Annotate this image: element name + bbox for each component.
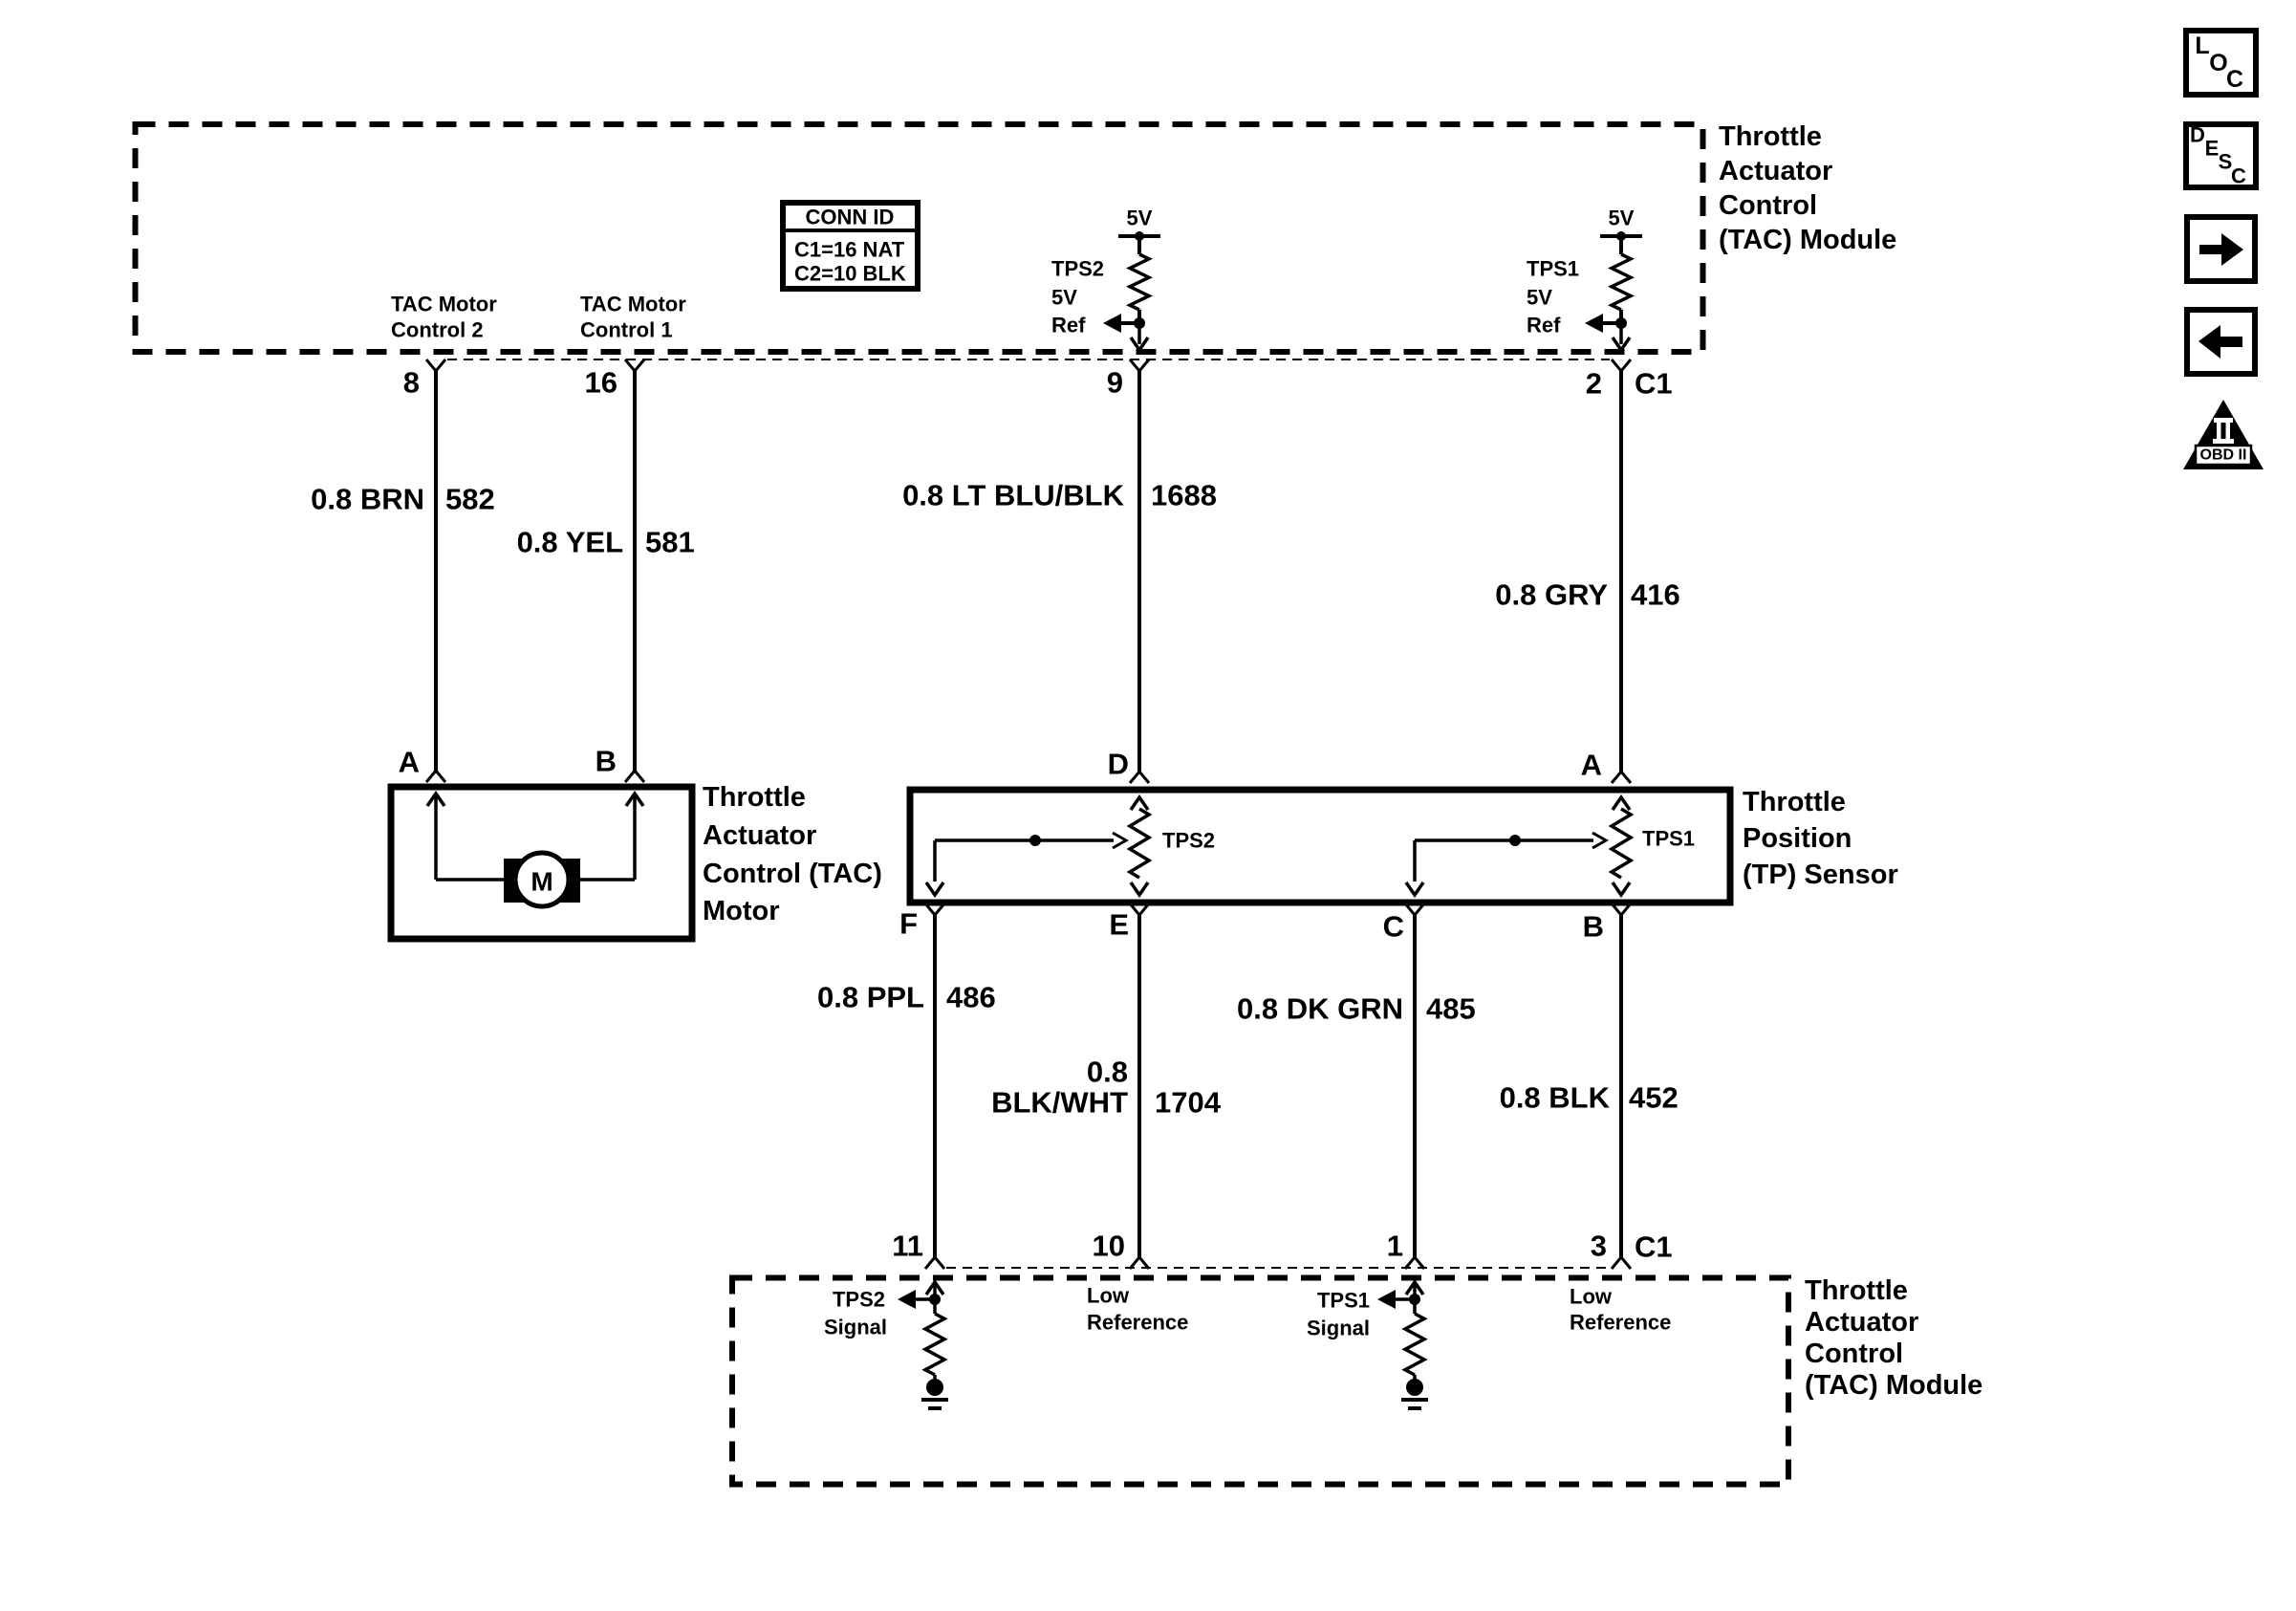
svg-text:TPS1: TPS1 bbox=[1527, 257, 1579, 281]
svg-text:0.8 LT BLU/BLK: 0.8 LT BLU/BLK bbox=[902, 479, 1125, 512]
svg-text:485: 485 bbox=[1426, 992, 1476, 1026]
wire: TPS2 5V Ref down to module edge with arrow bbox=[1131, 323, 1148, 350]
svg-text:(TAC) Module: (TAC) Module bbox=[1719, 225, 1896, 255]
label: TPS2 Signal bbox=[824, 1288, 887, 1339]
wire 485: 0.8 DK GRN from sensor C to module pin 1 bbox=[1413, 915, 1417, 1257]
svg-text:Throttle: Throttle bbox=[1743, 787, 1846, 817]
svg-text:F: F bbox=[899, 907, 918, 941]
wire 416: 0.8 GRY from pin 2 to sensor A bbox=[1619, 371, 1623, 772]
svg-text:0.8 PPL: 0.8 PPL bbox=[817, 981, 924, 1014]
svg-text:9: 9 bbox=[1107, 366, 1123, 400]
svg-text:11: 11 bbox=[892, 1230, 923, 1263]
wire: TPS1 signal entering module at pin bbox=[1406, 1282, 1423, 1299]
svg-text:Position: Position bbox=[1743, 823, 1852, 854]
svg-text:0.8 YEL: 0.8 YEL bbox=[517, 526, 623, 559]
label: wire 1688 colour/number bbox=[902, 479, 1217, 512]
svg-text:2: 2 bbox=[1586, 367, 1602, 401]
motor M1: TAC motor box bbox=[391, 787, 692, 939]
wire: TPS2 signal entering module at pin bbox=[926, 1282, 943, 1299]
pin 3 of bottom TAC module connector bbox=[1612, 1257, 1631, 1269]
connector: thin dashed C1 line above bottom module bbox=[946, 1267, 1610, 1269]
pin F of TP sensor bbox=[925, 903, 944, 915]
svg-text:B: B bbox=[596, 745, 617, 778]
label: TAC Motor Control 1 bbox=[580, 293, 686, 342]
svg-text:0.8 BLK: 0.8 BLK bbox=[1500, 1081, 1611, 1115]
svg-text:416: 416 bbox=[1631, 578, 1680, 612]
svg-text:CONN ID: CONN ID bbox=[806, 206, 895, 229]
svg-text:A: A bbox=[1581, 749, 1602, 782]
svg-text:(TP) Sensor: (TP) Sensor bbox=[1743, 860, 1898, 890]
svg-text:582: 582 bbox=[445, 483, 495, 516]
svg-text:Actuator: Actuator bbox=[1805, 1307, 1918, 1338]
module U1b: Throttle Actuator Control (TAC) Module (bottom dashed box) bbox=[732, 1278, 1788, 1485]
svg-text:486: 486 bbox=[946, 981, 996, 1014]
wire: TPS1 5V Ref down to module edge with arrow bbox=[1613, 323, 1630, 350]
node: 5V supply for TPS2 bbox=[1118, 207, 1160, 255]
pin 9 of top TAC module connector bbox=[1130, 359, 1149, 371]
svg-text:D: D bbox=[1108, 748, 1129, 781]
svg-text:D: D bbox=[2190, 123, 2205, 147]
svg-text:OBD II: OBD II bbox=[2200, 447, 2247, 464]
connector ID table bbox=[783, 203, 918, 289]
svg-text:452: 452 bbox=[1629, 1081, 1679, 1115]
svg-text:Low: Low bbox=[1570, 1285, 1613, 1309]
svg-text:C1: C1 bbox=[1635, 367, 1673, 401]
svg-text:C: C bbox=[2231, 164, 2246, 188]
resistor: TPS2 signal load bbox=[925, 1299, 944, 1382]
wire: motor internal lead B bbox=[626, 794, 643, 880]
svg-text:C1=16 NAT: C1=16 NAT bbox=[794, 238, 905, 262]
svg-text:Throttle: Throttle bbox=[1805, 1275, 1908, 1306]
svg-text:Actuator: Actuator bbox=[703, 820, 816, 851]
svg-text:Motor: Motor bbox=[703, 896, 780, 926]
wire 582: 0.8 BRN from pin 8 to motor A bbox=[434, 371, 438, 771]
sensor box: Throttle Position (TP) Sensor bbox=[910, 790, 1730, 903]
wire 1688: 0.8 LT BLU/BLK from pin 9 to sensor D bbox=[1137, 371, 1141, 772]
node: 5V supply for TPS1 bbox=[1600, 207, 1642, 255]
svg-text:O: O bbox=[2209, 50, 2227, 76]
svg-text:8: 8 bbox=[403, 366, 420, 400]
svg-text:Control (TAC): Control (TAC) bbox=[703, 859, 882, 889]
svg-text:L: L bbox=[2195, 33, 2209, 59]
pin 16 of top TAC module connector bbox=[625, 359, 644, 371]
wire: TPS2 wiper arm bbox=[926, 833, 1126, 895]
svg-text:E: E bbox=[1109, 908, 1129, 942]
pin A of TAC motor bbox=[426, 771, 445, 782]
wire 581: 0.8 YEL from pin 16 to motor B bbox=[633, 371, 637, 771]
svg-text:Ref: Ref bbox=[1527, 314, 1561, 337]
svg-text:Reference: Reference bbox=[1087, 1311, 1188, 1335]
svg-text:TPS1: TPS1 bbox=[1317, 1289, 1370, 1313]
svg-text:TAC Motor: TAC Motor bbox=[391, 293, 497, 316]
icon: OBD II symbol bbox=[2183, 400, 2264, 469]
resistor: TPS2 potentiometer element bbox=[1130, 797, 1149, 895]
wire 452: 0.8 BLK from sensor B to module pin 3 bbox=[1619, 915, 1623, 1257]
svg-text:0.8 DK GRN: 0.8 DK GRN bbox=[1237, 992, 1403, 1026]
label: bottom TAC module name bbox=[1805, 1275, 1982, 1401]
svg-text:C: C bbox=[1383, 910, 1404, 944]
svg-text:C: C bbox=[2226, 66, 2243, 93]
node: TPS1 5V Ref junction bbox=[1585, 314, 1627, 333]
icon: DESC button bbox=[2186, 123, 2256, 188]
svg-text:Signal: Signal bbox=[1307, 1317, 1370, 1340]
svg-text:Control 1: Control 1 bbox=[580, 318, 673, 342]
svg-text:Ref: Ref bbox=[1051, 314, 1086, 337]
pin 8 of top TAC module connector bbox=[426, 359, 445, 371]
svg-text:C2=10 BLK: C2=10 BLK bbox=[794, 262, 906, 286]
label: wire 416 colour/number bbox=[1495, 578, 1679, 612]
svg-text:(TAC) Module: (TAC) Module bbox=[1805, 1370, 1982, 1401]
wire: motor internal lead A bbox=[427, 794, 444, 880]
svg-text:0.8: 0.8 bbox=[1087, 1056, 1128, 1089]
svg-text:1688: 1688 bbox=[1151, 479, 1217, 512]
label: Low Reference (pin 10) bbox=[1087, 1284, 1188, 1335]
node: TPS1 signal junction bbox=[1377, 1290, 1420, 1309]
pin 1 of bottom TAC module connector bbox=[1405, 1257, 1424, 1269]
svg-text:E: E bbox=[2205, 137, 2220, 161]
svg-text:B: B bbox=[1583, 910, 1604, 944]
pin D of TP sensor bbox=[1130, 772, 1149, 783]
svg-text:A: A bbox=[399, 746, 420, 779]
label: wire 581 colour/number bbox=[517, 526, 695, 559]
svg-text:C1: C1 bbox=[1635, 1230, 1673, 1264]
pin 11 of bottom TAC module connector bbox=[925, 1257, 944, 1269]
label: wire 1704 colour/number bbox=[991, 1056, 1222, 1120]
svg-text:10: 10 bbox=[1093, 1230, 1125, 1263]
svg-text:TPS2: TPS2 bbox=[1051, 257, 1104, 281]
label: TPS2 5V Ref bbox=[1051, 257, 1104, 337]
pin A of TP sensor bbox=[1612, 772, 1631, 783]
pin 10 of bottom TAC module connector bbox=[1130, 1257, 1149, 1269]
svg-text:TPS2: TPS2 bbox=[833, 1288, 885, 1312]
svg-text:Control: Control bbox=[1719, 190, 1817, 221]
pin 2 of top TAC module connector bbox=[1612, 359, 1631, 371]
svg-text:Throttle: Throttle bbox=[1719, 121, 1822, 152]
resistor: TPS1 signal load bbox=[1405, 1299, 1424, 1382]
pin E of TP sensor bbox=[1130, 903, 1149, 915]
pin C of TP sensor bbox=[1405, 903, 1424, 915]
node: TPS2 5V Ref junction bbox=[1103, 314, 1145, 333]
resistor: TPS1 5V pull-up bbox=[1612, 254, 1631, 323]
svg-text:Control: Control bbox=[1805, 1339, 1903, 1369]
label: wire 486 colour/number bbox=[817, 981, 996, 1014]
motor M symbol bbox=[504, 853, 580, 906]
wire 1704: 0.8 BLK/WHT from sensor E to module pin 10 bbox=[1137, 915, 1141, 1257]
label: top TAC module name bbox=[1719, 121, 1896, 255]
wire: motor internal horizontal lead bbox=[436, 878, 635, 882]
ground: TPS2 signal ground bbox=[921, 1379, 948, 1408]
module U1: Throttle Actuator Control (TAC) Module (top dashed box) bbox=[136, 124, 1703, 352]
svg-text:Actuator: Actuator bbox=[1719, 156, 1832, 186]
node: TPS2 signal junction bbox=[898, 1290, 941, 1309]
svg-text:5V: 5V bbox=[1051, 286, 1077, 310]
svg-text:0.8 BRN: 0.8 BRN bbox=[311, 483, 424, 516]
svg-text:1: 1 bbox=[1387, 1230, 1403, 1263]
svg-text:Signal: Signal bbox=[824, 1316, 887, 1339]
connector: thin dashed C1 line below top module bbox=[447, 359, 1610, 360]
label: wire 485 colour/number bbox=[1237, 992, 1476, 1026]
svg-text:Throttle: Throttle bbox=[703, 782, 806, 813]
icon: LOC button bbox=[2186, 31, 2256, 95]
label: TAC Motor Control 2 bbox=[391, 293, 497, 342]
label: TPS1 Signal bbox=[1307, 1289, 1370, 1340]
wire: TPS1 wiper arm bbox=[1406, 833, 1606, 895]
svg-text:0.8 GRY: 0.8 GRY bbox=[1495, 578, 1608, 612]
svg-text:TPS1: TPS1 bbox=[1642, 827, 1695, 851]
label: TAC motor name bbox=[703, 782, 882, 926]
svg-text:3: 3 bbox=[1591, 1230, 1607, 1263]
svg-text:TPS2: TPS2 bbox=[1162, 829, 1215, 853]
label: wire 452 colour/number bbox=[1500, 1081, 1679, 1115]
svg-text:5V: 5V bbox=[1609, 207, 1635, 230]
svg-text:16: 16 bbox=[585, 366, 617, 400]
label: TPS1 5V Ref bbox=[1527, 257, 1579, 337]
svg-text:Low: Low bbox=[1087, 1284, 1130, 1308]
svg-text:M: M bbox=[531, 867, 552, 897]
label: TP sensor name bbox=[1743, 787, 1898, 890]
ground: TPS1 signal ground bbox=[1401, 1379, 1428, 1408]
pin B of TP sensor bbox=[1612, 903, 1631, 915]
svg-text:581: 581 bbox=[645, 526, 695, 559]
svg-text:5V: 5V bbox=[1527, 286, 1552, 310]
resistor: TPS2 5V pull-up bbox=[1130, 254, 1149, 323]
icon: back arrow button bbox=[2187, 310, 2255, 374]
label: Low Reference (pin 3) bbox=[1570, 1285, 1671, 1335]
svg-text:BLK/WHT: BLK/WHT bbox=[991, 1086, 1128, 1120]
resistor: TPS1 potentiometer element bbox=[1612, 797, 1631, 895]
svg-text:Control 2: Control 2 bbox=[391, 318, 484, 342]
svg-text:1704: 1704 bbox=[1155, 1086, 1222, 1120]
svg-text:5V: 5V bbox=[1127, 207, 1153, 230]
label: wire 582 colour/number bbox=[311, 483, 495, 516]
wire 486: 0.8 PPL from sensor F to module pin 11 bbox=[933, 915, 937, 1257]
svg-text:Reference: Reference bbox=[1570, 1311, 1671, 1335]
icon: forward arrow button bbox=[2187, 217, 2255, 281]
svg-text:TAC Motor: TAC Motor bbox=[580, 293, 686, 316]
pin B of TAC motor bbox=[625, 771, 644, 782]
